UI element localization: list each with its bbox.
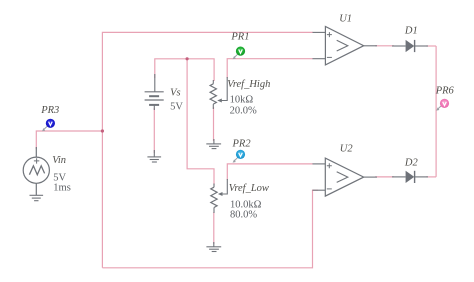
junction node Vin/left rail — [101, 129, 104, 132]
ground of Vs — [147, 150, 161, 162]
svg-text:80.0%: 80.0% — [230, 209, 257, 220]
probe PR3 — [42, 119, 55, 131]
ground of Vref_Low — [206, 242, 221, 252]
wire left rail down to bottom — [101, 131, 103, 268]
svg-text:1ms: 1ms — [53, 183, 71, 194]
svg-text:PR3: PR3 — [40, 105, 59, 116]
diode D2 — [392, 171, 428, 183]
wire Vref_Low wiper to U2+ — [227, 164, 312, 180]
wire right rail D1-D2 — [435, 46, 437, 177]
wire top rail Vin to U1+ — [102, 32, 312, 131]
op-amp U2 — [313, 158, 378, 196]
potentiometer Vref_Low — [211, 179, 228, 213]
diode D1 — [392, 40, 428, 52]
svg-text:10kΩ: 10kΩ — [230, 95, 254, 106]
wire U2 output to D2 — [375, 176, 394, 178]
source Vin — [23, 147, 49, 195]
ground of Vref_High — [206, 139, 221, 149]
svg-text:Vs: Vs — [170, 88, 181, 99]
wire Vs junction drop to Vref_Low — [187, 59, 214, 185]
svg-text:U2: U2 — [340, 143, 354, 154]
svg-text:D1: D1 — [404, 26, 418, 37]
ground of Vin — [30, 195, 44, 200]
svg-text:20.0%: 20.0% — [230, 105, 257, 116]
battery Vs — [145, 74, 164, 110]
op-amp U1 — [313, 27, 378, 65]
wire Vin output — [36, 131, 102, 149]
wire D1 to right rail — [426, 45, 436, 47]
svg-text:PR2: PR2 — [232, 138, 252, 149]
svg-text:D2: D2 — [404, 158, 419, 169]
wire bottom rail to U2- — [102, 190, 318, 268]
svg-text:5V: 5V — [170, 101, 183, 112]
wire Vref_High wiper to U1- — [227, 59, 313, 78]
probe PR2 — [233, 150, 245, 163]
probe PR1 — [233, 47, 245, 60]
svg-text:Vref_High: Vref_High — [227, 79, 270, 90]
wire U1 output to D1 — [375, 45, 394, 47]
potentiometer Vref_High — [210, 77, 227, 109]
svg-text:Vref_Low: Vref_Low — [229, 183, 269, 194]
wire Vs bottom lead pink — [153, 108, 155, 153]
svg-text:U1: U1 — [339, 13, 352, 24]
wire D2 to right rail — [426, 176, 436, 178]
svg-text:Vin: Vin — [52, 155, 66, 166]
probe PR6 — [436, 99, 449, 111]
wire Vref_Low bottom lead pink — [213, 212, 215, 244]
svg-text:PR6: PR6 — [435, 85, 455, 96]
wire Vs top rail — [155, 59, 214, 81]
wire Vref_High bottom lead pink — [213, 107, 215, 141]
junction node Vs rail — [186, 57, 189, 60]
svg-text:PR1: PR1 — [230, 31, 249, 42]
